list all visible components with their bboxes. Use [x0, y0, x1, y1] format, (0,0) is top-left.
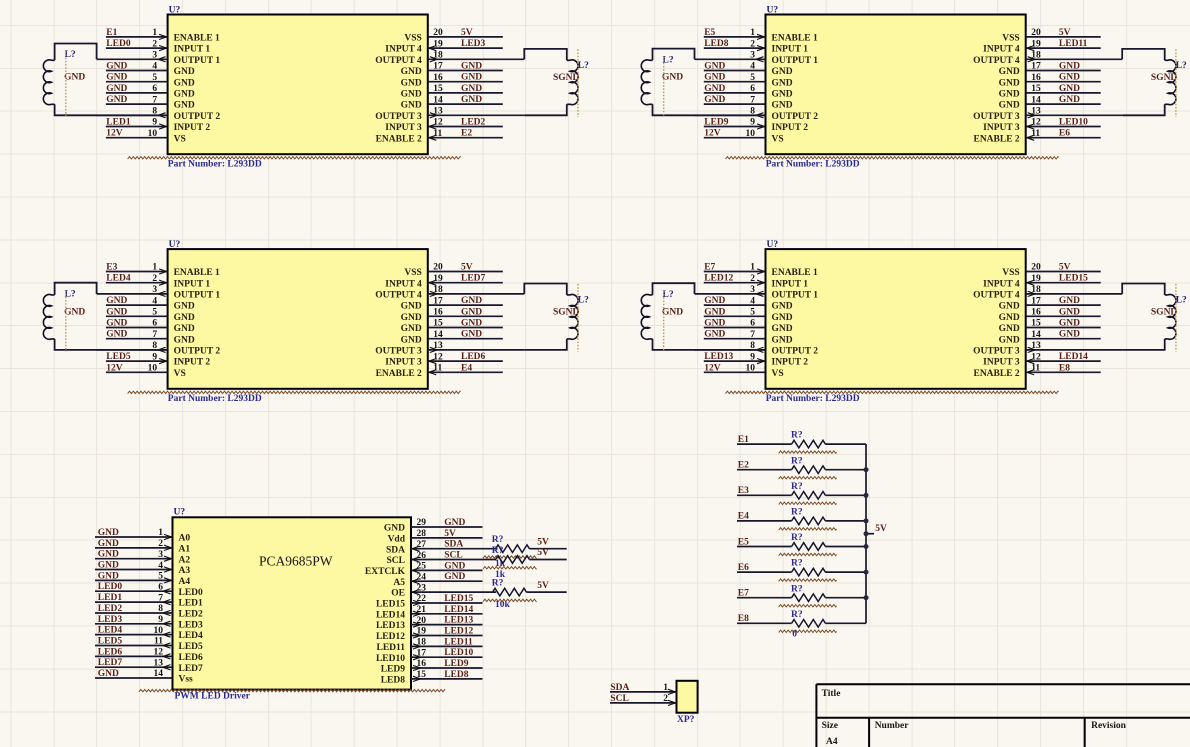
svg-text:ENABLE 2: ENABLE 2 [973, 369, 1019, 379]
svg-text:LED1: LED1 [98, 593, 123, 603]
U1 pin 19 (INPUT 4) wire/net LED3 [385, 39, 503, 55]
U1 pin 12 (INPUT 3) wire/net LED2 [385, 118, 503, 134]
inductor L2a (left of U2) [641, 49, 765, 116]
U2 pin 14 (GND) wire/net GND [999, 95, 1101, 111]
svg-text:GND: GND [999, 90, 1020, 100]
svg-text:13: 13 [1031, 341, 1041, 351]
svg-text:10: 10 [746, 129, 756, 139]
U2 pin 15 (GND) wire/net GND [999, 84, 1101, 100]
title block label Size [822, 721, 838, 731]
svg-text:A4: A4 [179, 577, 191, 587]
designator L1a [65, 50, 76, 60]
svg-text:EXTCLK: EXTCLK [365, 567, 406, 577]
junction at E5 row [864, 544, 869, 549]
power net 5V stub on bank bus [864, 524, 887, 536]
svg-text:OUTPUT 4: OUTPUT 4 [375, 291, 422, 301]
svg-text:OUTPUT 1: OUTPUT 1 [174, 291, 221, 301]
svg-text:VS: VS [174, 369, 186, 379]
designator L3b [578, 296, 589, 306]
U4 pin 14 (GND) wire/net GND [999, 330, 1101, 346]
svg-text:GND: GND [64, 307, 85, 317]
svg-text:3: 3 [750, 285, 755, 295]
svg-text:INPUT 4: INPUT 4 [385, 279, 422, 289]
svg-text:GND: GND [772, 101, 793, 111]
svg-text:INPUT 4: INPUT 4 [385, 45, 422, 55]
U4 pin 12 (INPUT 3) wire/net LED14 [983, 352, 1101, 368]
inductor L2b (right of U2) [1122, 49, 1176, 115]
U5 pin 4 (A3) wire/net GND [95, 561, 190, 577]
svg-text:Vss: Vss [179, 675, 194, 685]
U3 pin 6 (GND) wire/net GND [106, 319, 195, 335]
U2 pin 7 (GND) wire/net GND [704, 95, 793, 111]
svg-text:20: 20 [1031, 263, 1041, 273]
U4 pin 5 (GND) wire/net GND [704, 307, 793, 323]
svg-text:LED4: LED4 [106, 274, 131, 284]
svg-text:INPUT 3: INPUT 3 [385, 123, 422, 133]
U1 pin 16 (GND) wire/net GND [401, 73, 503, 89]
designator U3 [169, 240, 181, 250]
svg-text:LED15: LED15 [376, 600, 405, 610]
svg-text:26: 26 [417, 551, 427, 561]
svg-text:LED3: LED3 [461, 39, 486, 49]
svg-text:19: 19 [433, 39, 443, 49]
U4 pin 11 (ENABLE 2) wire/net E8 [973, 363, 1100, 379]
svg-text:SGND: SGND [1151, 308, 1178, 318]
svg-text:E2: E2 [461, 129, 472, 139]
U5 pin 21 (LED14) wire/net LED14 [376, 605, 483, 621]
svg-text:17: 17 [417, 648, 427, 658]
svg-text:A0: A0 [179, 534, 191, 544]
svg-text:14: 14 [1031, 95, 1041, 105]
svg-text:28: 28 [417, 529, 427, 539]
svg-text:VSS: VSS [404, 34, 421, 44]
svg-text:R?: R? [492, 579, 504, 589]
svg-text:VS: VS [174, 134, 186, 144]
svg-text:R?: R? [791, 559, 803, 569]
svg-text:GND: GND [106, 307, 127, 317]
svg-text:5V: 5V [444, 529, 456, 539]
svg-text:OUTPUT 2: OUTPUT 2 [174, 112, 221, 122]
svg-text:GND: GND [98, 528, 119, 538]
svg-text:LED12: LED12 [376, 632, 405, 642]
svg-text:GND: GND [98, 571, 119, 581]
svg-text:A5: A5 [393, 578, 405, 588]
svg-text:GND: GND [1059, 330, 1080, 340]
U3 pin 4 (GND) wire/net GND [106, 296, 195, 312]
resistor R11 net E6 [737, 559, 866, 582]
designator L2b [1176, 61, 1187, 71]
svg-text:GND: GND [772, 313, 793, 323]
svg-text:1: 1 [158, 528, 163, 538]
U3 compile-mask squiggle [128, 391, 461, 393]
svg-text:Part Number: L293DD: Part Number: L293DD [168, 394, 262, 404]
svg-text:E4: E4 [461, 363, 472, 373]
junction at E7 row [864, 595, 869, 600]
U3 pin 14 (GND) wire/net GND [401, 330, 503, 346]
svg-text:5V: 5V [537, 537, 549, 547]
U2 pin 20 (VSS) wire/net 5V [1002, 28, 1100, 44]
svg-text:18: 18 [1031, 285, 1041, 295]
U2 pin 17 (GND) wire/net GND [999, 62, 1101, 78]
svg-text:Title: Title [822, 689, 841, 699]
svg-text:16: 16 [433, 308, 443, 318]
svg-text:5: 5 [750, 73, 755, 83]
svg-text:6: 6 [152, 319, 157, 329]
U1 pin 4 (GND) wire/net GND [106, 62, 195, 78]
svg-text:INPUT 1: INPUT 1 [772, 279, 809, 289]
svg-text:8: 8 [158, 604, 163, 614]
designator L2a [663, 55, 674, 65]
svg-text:VS: VS [772, 134, 784, 144]
svg-text:GND: GND [401, 302, 422, 312]
svg-text:INPUT 4: INPUT 4 [983, 279, 1020, 289]
U1 pin 2 (INPUT 1) wire/net LED0 [106, 39, 210, 55]
svg-text:ENABLE 2: ENABLE 2 [376, 369, 422, 379]
svg-text:OUTPUT 4: OUTPUT 4 [973, 56, 1020, 66]
svg-text:LED10: LED10 [444, 648, 473, 658]
svg-text:GND: GND [772, 78, 793, 88]
svg-text:A4: A4 [826, 737, 838, 747]
svg-text:22: 22 [417, 594, 427, 604]
U1 pin 20 (VSS) wire/net 5V [404, 28, 502, 44]
U4 pin 10 (VS) wire/net 12V [704, 363, 784, 379]
svg-text:U?: U? [169, 240, 181, 250]
svg-text:GND: GND [384, 524, 405, 534]
U2 pin 12 (INPUT 3) wire/net LED10 [983, 118, 1101, 134]
svg-text:R?: R? [791, 482, 803, 492]
svg-text:GND: GND [704, 296, 725, 306]
U5 pin 20 (LED13) wire/net LED13 [376, 616, 483, 632]
svg-text:18: 18 [1031, 51, 1041, 61]
U5 pin 3 (A2) wire/net GND [95, 550, 190, 566]
junction at E6 row [864, 570, 869, 575]
connector XP1 body [677, 681, 698, 713]
svg-text:U?: U? [767, 240, 779, 250]
U3 pin 15 (GND) wire/net GND [401, 319, 503, 335]
svg-text:4: 4 [750, 62, 755, 72]
svg-text:LED12: LED12 [704, 274, 733, 284]
svg-text:2: 2 [152, 39, 157, 49]
svg-text:13: 13 [154, 658, 164, 668]
svg-text:11: 11 [433, 129, 442, 139]
svg-text:15: 15 [433, 319, 443, 329]
svg-text:21: 21 [417, 605, 427, 615]
svg-text:INPUT 1: INPUT 1 [174, 45, 211, 55]
svg-text:GND: GND [1059, 319, 1080, 329]
net SGND at L4b [1151, 308, 1178, 318]
U4 pin 1 (ENABLE 1) wire/net E7 [704, 263, 818, 279]
svg-text:E1: E1 [106, 28, 117, 38]
svg-text:GND: GND [174, 302, 195, 312]
designator U1 [169, 5, 181, 15]
svg-text:25: 25 [417, 562, 427, 572]
svg-text:1: 1 [750, 263, 755, 273]
U3 pin 12 (INPUT 3) wire/net LED6 [385, 352, 503, 368]
svg-text:LED0: LED0 [98, 582, 123, 592]
svg-text:R?: R? [791, 610, 803, 620]
resistor R2 (1k) on SDA line [483, 535, 567, 569]
svg-text:GND: GND [772, 302, 793, 312]
L1a vertical mask line [65, 51, 67, 117]
svg-text:GND: GND [704, 319, 725, 329]
IC U3 (L293DD) body [168, 249, 428, 389]
svg-text:A3: A3 [179, 566, 191, 576]
svg-text:OUTPUT 1: OUTPUT 1 [174, 56, 221, 66]
svg-text:LED6: LED6 [461, 352, 486, 362]
svg-text:10: 10 [746, 364, 756, 374]
svg-text:GND: GND [401, 90, 422, 100]
U4 pin 7 (GND) wire/net GND [704, 330, 793, 346]
U4 pin 9 (INPUT 2) wire/net LED13 [704, 352, 808, 368]
svg-text:4: 4 [152, 296, 157, 306]
svg-text:A1: A1 [179, 545, 191, 555]
U3 pin 5 (GND) wire/net GND [106, 307, 195, 323]
svg-text:20: 20 [417, 616, 427, 626]
svg-text:R?: R? [791, 431, 803, 441]
svg-text:LED7: LED7 [179, 664, 204, 674]
svg-text:SDA: SDA [386, 545, 405, 555]
U3 pin 11 (ENABLE 2) wire/net E4 [376, 363, 503, 379]
svg-text:GND: GND [999, 78, 1020, 88]
svg-text:2: 2 [663, 694, 668, 704]
svg-text:ENABLE 1: ENABLE 1 [772, 268, 818, 278]
svg-text:Part Number: L293DD: Part Number: L293DD [766, 159, 860, 169]
svg-text:LED9: LED9 [381, 665, 406, 675]
svg-text:LED14: LED14 [376, 610, 405, 620]
svg-text:GND: GND [106, 62, 127, 72]
svg-text:14: 14 [433, 330, 443, 340]
U4 pin 4 (GND) wire/net GND [704, 296, 793, 312]
U5 pin 18 (LED11) wire/net LED11 [376, 637, 482, 653]
L2b vertical mask line [1175, 49, 1177, 117]
svg-text:GND: GND [174, 78, 195, 88]
svg-text:GND: GND [772, 67, 793, 77]
svg-text:1: 1 [152, 28, 157, 38]
U2 pin 8 (OUTPUT 2) wire/net - [695, 107, 819, 122]
designator U4 [767, 240, 779, 250]
svg-text:LED11: LED11 [1059, 39, 1088, 49]
svg-text:3: 3 [750, 51, 755, 61]
svg-text:4: 4 [152, 62, 157, 72]
svg-text:LED4: LED4 [179, 631, 204, 641]
U2 pin 2 (INPUT 1) wire/net LED8 [704, 39, 808, 55]
title block label Revision [1091, 721, 1127, 731]
svg-text:E8: E8 [1059, 363, 1070, 373]
U4 pin 3 (OUTPUT 1) wire/net - [695, 285, 819, 300]
svg-text:9: 9 [750, 118, 755, 128]
U3 pin 9 (INPUT 2) wire/net LED5 [106, 352, 210, 368]
svg-text:OUTPUT 2: OUTPUT 2 [772, 112, 819, 122]
net GND at L2a [662, 73, 683, 83]
designator XP1 [677, 715, 695, 725]
U2 pin 9 (INPUT 2) wire/net LED9 [704, 118, 808, 134]
svg-text:L?: L? [578, 296, 589, 306]
L4a vertical mask line [663, 291, 665, 352]
svg-text:6: 6 [750, 319, 755, 329]
svg-text:Vdd: Vdd [388, 535, 406, 545]
U5 pin 2 (A1) wire/net GND [95, 539, 190, 555]
svg-text:INPUT 2: INPUT 2 [174, 123, 211, 133]
svg-text:7: 7 [158, 593, 163, 603]
svg-text:INPUT 1: INPUT 1 [772, 45, 809, 55]
svg-text:9: 9 [158, 615, 163, 625]
svg-text:27: 27 [417, 540, 427, 550]
U4 pin 13 (OUTPUT 3) wire/net - [973, 341, 1122, 356]
U2 pin 6 (GND) wire/net GND [704, 84, 793, 100]
svg-text:OUTPUT 1: OUTPUT 1 [772, 56, 819, 66]
svg-text:GND: GND [444, 572, 465, 582]
svg-text:GND: GND [772, 90, 793, 100]
svg-text:13: 13 [1031, 107, 1041, 117]
svg-text:INPUT 2: INPUT 2 [174, 358, 211, 368]
U3 pin 1 (ENABLE 1) wire/net E3 [106, 263, 220, 279]
svg-text:20: 20 [433, 28, 443, 38]
svg-text:12V: 12V [106, 363, 123, 373]
svg-text:16: 16 [1031, 73, 1041, 83]
svg-text:7: 7 [152, 95, 157, 105]
svg-text:GND: GND [401, 101, 422, 111]
U3 pin 16 (GND) wire/net GND [401, 307, 503, 323]
svg-text:7: 7 [152, 330, 157, 340]
U5 pin 12 (LED6) wire/net LED6 [95, 647, 203, 663]
svg-text:5V: 5V [537, 548, 549, 558]
svg-text:Part Number: L293DD: Part Number: L293DD [766, 394, 860, 404]
resistor R8 net E3 [737, 482, 866, 505]
title block label Number [875, 721, 910, 731]
junction at E2 row [864, 467, 869, 472]
svg-text:GND: GND [461, 296, 482, 306]
U2 pin 1 (ENABLE 1) wire/net E5 [704, 28, 818, 44]
svg-text:GND: GND [106, 330, 127, 340]
U4 pin 8 (OUTPUT 2) wire/net - [695, 341, 819, 356]
svg-text:14: 14 [154, 669, 164, 679]
U1 pin 1 (ENABLE 1) wire/net E1 [106, 28, 220, 44]
svg-text:12: 12 [1031, 118, 1041, 128]
svg-text:PCA9685PW: PCA9685PW [259, 553, 333, 568]
U3 comment Part Number: L293DD [168, 394, 262, 404]
U4 pin 16 (GND) wire/net GND [999, 307, 1101, 323]
U2 pin 16 (GND) wire/net GND [999, 73, 1101, 89]
svg-text:R?: R? [791, 584, 803, 594]
svg-text:GND: GND [1059, 296, 1080, 306]
U1 pin 8 (OUTPUT 2) wire/net - [97, 107, 221, 122]
U1 pin 9 (INPUT 2) wire/net LED1 [106, 118, 210, 134]
svg-text:GND: GND [704, 330, 725, 340]
title block frame [816, 684, 1190, 747]
svg-text:LED8: LED8 [381, 676, 406, 686]
svg-text:SGND: SGND [553, 308, 580, 318]
svg-text:GND: GND [461, 73, 482, 83]
svg-text:10: 10 [148, 129, 158, 139]
svg-text:A2: A2 [179, 555, 191, 565]
IC U5 (PCA9685PW) body [173, 517, 412, 689]
svg-text:19: 19 [1031, 274, 1041, 284]
svg-text:GND: GND [1059, 84, 1080, 94]
U4 pin 2 (INPUT 1) wire/net LED12 [704, 274, 808, 290]
IC U4 (L293DD) body [766, 249, 1026, 389]
U4 pin 18 (OUTPUT 4) wire/net - [973, 285, 1122, 300]
XP1 pin 1 wire/net SDA [610, 683, 677, 695]
svg-text:SGND: SGND [553, 73, 580, 83]
IC U1 (L293DD) body [168, 15, 428, 155]
svg-text:GND: GND [106, 84, 127, 94]
svg-text:R?: R? [791, 533, 803, 543]
U5 pin 19 (LED12) wire/net LED12 [376, 627, 483, 643]
svg-text:ENABLE 2: ENABLE 2 [376, 134, 422, 144]
svg-text:LED12: LED12 [444, 627, 473, 637]
L2a vertical mask line [663, 56, 665, 117]
svg-text:GND: GND [461, 62, 482, 72]
svg-text:11: 11 [433, 364, 442, 374]
svg-text:GND: GND [106, 319, 127, 329]
svg-text:15: 15 [417, 670, 427, 680]
svg-text:LED3: LED3 [98, 615, 123, 625]
svg-text:OUTPUT 3: OUTPUT 3 [973, 112, 1020, 122]
U5 pin 11 (LED5) wire/net LED5 [95, 637, 203, 653]
svg-text:INPUT 2: INPUT 2 [772, 358, 809, 368]
svg-text:GND: GND [106, 73, 127, 83]
svg-text:GND: GND [662, 73, 683, 83]
svg-text:GND: GND [999, 324, 1020, 334]
svg-text:INPUT 3: INPUT 3 [385, 358, 422, 368]
svg-text:GND: GND [174, 335, 195, 345]
svg-text:ENABLE 1: ENABLE 1 [772, 34, 818, 44]
svg-text:GND: GND [444, 518, 465, 528]
svg-text:2: 2 [158, 539, 163, 549]
svg-text:GND: GND [444, 561, 465, 571]
svg-text:VS: VS [772, 369, 784, 379]
svg-text:OUTPUT 2: OUTPUT 2 [772, 347, 819, 357]
svg-text:LED14: LED14 [444, 605, 473, 615]
svg-text:GND: GND [1059, 95, 1080, 105]
svg-text:GND: GND [174, 101, 195, 111]
U5 pin 22 (LED15) wire/net LED15 [376, 594, 483, 610]
svg-text:LED1: LED1 [106, 118, 131, 128]
svg-text:LED6: LED6 [98, 647, 123, 657]
svg-text:L?: L? [1176, 296, 1187, 306]
U4 pin 20 (VSS) wire/net 5V [1002, 263, 1100, 279]
junction at E3 row [864, 493, 869, 498]
U2 pin 3 (OUTPUT 1) wire/net - [695, 51, 819, 66]
svg-text:OUTPUT 4: OUTPUT 4 [375, 56, 422, 66]
svg-text:9: 9 [750, 352, 755, 362]
U5 pin 6 (LED0) wire/net LED0 [95, 582, 203, 598]
svg-text:LED13: LED13 [444, 616, 473, 626]
svg-text:GND: GND [401, 324, 422, 334]
svg-text:U?: U? [169, 5, 181, 15]
U3 pin 20 (VSS) wire/net 5V [404, 263, 502, 279]
svg-text:6: 6 [152, 84, 157, 94]
U5 pin 24 (A5) wire/net GND [393, 572, 482, 588]
resistor R10 net E5 [737, 533, 866, 556]
svg-text:LED8: LED8 [704, 39, 729, 49]
svg-text:5V: 5V [537, 581, 549, 591]
inductor L3b (right of U3) [524, 284, 578, 350]
svg-text:GND: GND [1059, 307, 1080, 317]
svg-text:24: 24 [417, 573, 427, 583]
svg-text:R?: R? [791, 508, 803, 518]
U3 pin 19 (INPUT 4) wire/net LED7 [385, 274, 503, 290]
U5 pin 7 (LED1) wire/net LED1 [95, 593, 203, 609]
svg-text:LED13: LED13 [704, 352, 733, 362]
svg-text:10: 10 [154, 626, 164, 636]
resistor R7 net E2 [737, 456, 866, 479]
svg-text:INPUT 3: INPUT 3 [983, 358, 1020, 368]
svg-text:SCL: SCL [610, 694, 628, 704]
svg-text:12V: 12V [704, 129, 721, 139]
svg-text:Revision: Revision [1091, 721, 1127, 731]
svg-text:14: 14 [1031, 330, 1041, 340]
